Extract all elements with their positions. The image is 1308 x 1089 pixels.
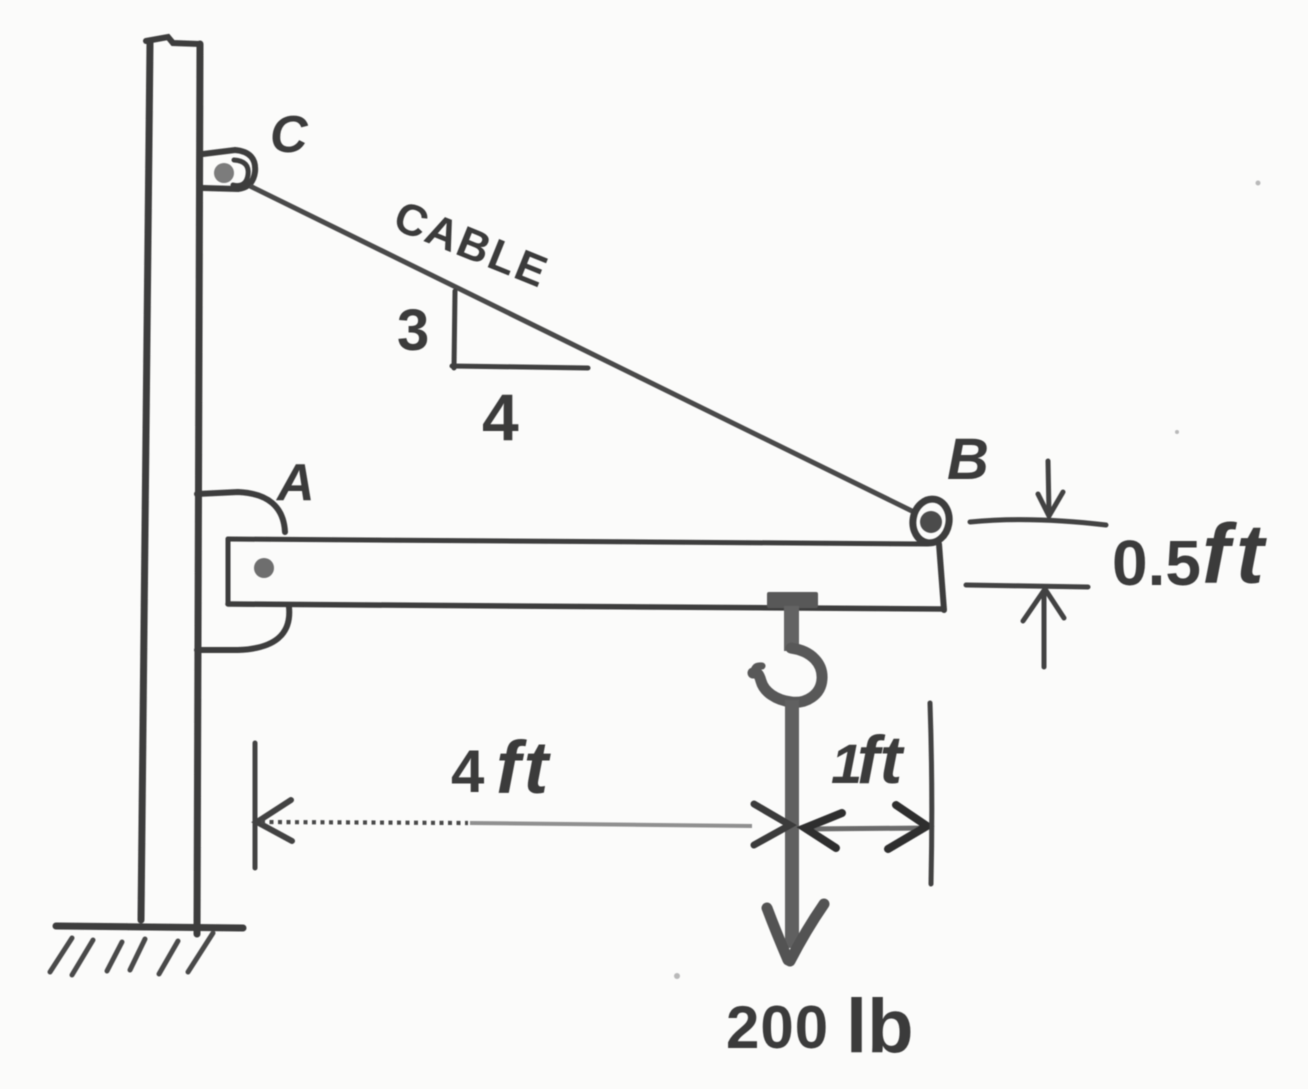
svg-text:200: 200 [726,994,829,1061]
dimension 0.5ft down arrow [1038,461,1063,516]
bracket A lower [197,607,289,650]
load line [785,700,799,948]
svg-text:B: B [947,427,989,492]
svg-text:C: C [270,106,309,164]
bracket C (cable anchor on post) [203,150,255,189]
pin A [254,558,274,578]
beam [228,539,944,610]
svg-text:ft: ft [1202,507,1270,601]
anchor B [909,496,952,546]
dimension 1ft right arrow [888,805,927,849]
dimension 0.5ft bottom tick [966,585,1088,587]
dimension 4ft left arrow [257,800,292,841]
svg-text:lb: lb [846,984,914,1069]
hook [753,648,822,702]
hook tip barb [754,666,762,675]
svg-text:4: 4 [482,380,519,454]
ground hatching [50,933,213,975]
slope triangle [452,291,588,368]
dimension 1ft right tick [930,703,932,884]
post (wall column) [141,37,200,934]
hook stem [784,606,799,651]
load arrowhead [767,904,824,961]
svg-text:ft: ft [496,726,552,809]
dimension 0.5ft up arrow [1023,589,1064,667]
dimension 1ft line [803,828,927,829]
svg-text:A: A [275,454,315,512]
svg-text:4: 4 [451,738,485,805]
dimension 4ft right arrow [754,804,790,845]
dimension 4ft dotted line [261,822,468,823]
ground [56,926,243,928]
pin C [214,163,234,183]
dimension 4ft left tick [253,743,258,868]
dimension 1ft left arrow [805,813,842,848]
paper speckles [674,181,1261,980]
cable [250,186,914,512]
svg-text:3: 3 [397,298,429,363]
dimension 4ft faint line [470,823,752,826]
svg-text:ft: ft [857,722,905,798]
svg-text:0.5: 0.5 [1112,527,1201,599]
hook attachment tab [767,592,818,608]
dimension 0.5ft top tick [970,520,1106,525]
bracket A upper [197,492,285,532]
